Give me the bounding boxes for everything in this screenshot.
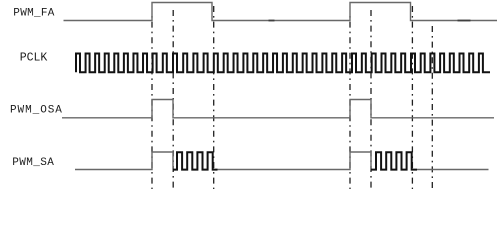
waveform PWM_OSA [62,100,494,118]
dashed marker line t1 (x=152) [151,14,153,189]
wire PWM_SA trailing low [417,169,489,171]
dashed marker line t3 (x=213.7) [213,6,215,189]
dashed marker line t6 (x=412.4) [411,6,413,189]
wire PWM_SA low between bursts [218,152,372,170]
wire PWM_FA low darker overlap segment 2 [269,20,275,22]
waveform PWM_SA thin segments [75,152,173,170]
wire PWM_FA low darker overlap segment [458,20,471,22]
svg-text:PWM_FA: PWM_FA [13,8,55,20]
waveform PCLK (clock, 42 pulses) [76,54,490,73]
dashed marker line t2 (x=173.2) [172,10,174,189]
svg-text:PWM_OSA: PWM_OSA [10,105,63,117]
waveform PWM_SA burst 1 (gated clock) [173,152,218,169]
dashed marker line t7 (x=432.3) [431,26,433,189]
dashed marker line t5 (x=371) [370,10,372,189]
waveform PWM_SA burst 2 (gated clock) [371,152,417,169]
svg-text:PCLK: PCLK [20,51,48,64]
svg-text:PWM_SA: PWM_SA [12,157,54,169]
dashed marker line t4 (x=350) [349,14,351,189]
waveform PWM_FA [64,3,498,21]
